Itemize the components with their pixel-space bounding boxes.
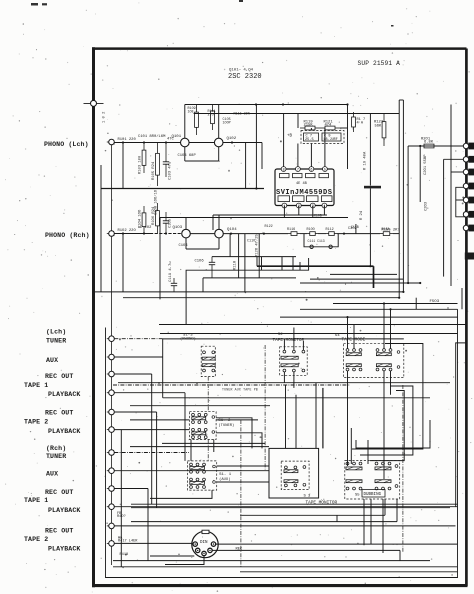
svg-text:C119 4.7u: C119 4.7u [169, 261, 173, 282]
switch S1-2 unit a [192, 413, 208, 423]
svg-text:6: 6 [310, 169, 312, 173]
wire long drop A [398, 100, 400, 298]
resistor R117 [352, 112, 356, 132]
dashdot vertical left [240, 420, 242, 567]
DIN pin 2 [196, 548, 200, 552]
wire c106 bus [212, 256, 296, 258]
wire coupling to IC pin [261, 143, 263, 170]
wire phono R input shielded [150, 233, 181, 235]
capacitor C119 [171, 278, 177, 292]
S5 right contact a [395, 465, 398, 468]
transistor Q104 [215, 229, 224, 238]
wire S1-2 out b [216, 433, 262, 449]
wire R104 rise [122, 234, 124, 293]
wire IC bottom bus 2 [160, 217, 348, 219]
svg-text:R103 100: R103 100 [139, 155, 143, 174]
wire y420 bus b [216, 419, 258, 421]
rec out tape1 R jack ground tab [107, 488, 109, 490]
wire x257 tie [256, 257, 258, 267]
svg-text:C11B: C11B [351, 225, 359, 229]
connector bracket [456, 187, 466, 217]
wire S2 stub3 [302, 341, 304, 350]
wire x400 drop [399, 550, 401, 560]
svg-text:R417 L4ER: R417 L4ER [118, 540, 138, 544]
wire pin2 stub [297, 144, 299, 167]
wire S4 stub4 [390, 309, 392, 348]
wire S1 to housing [217, 465, 269, 467]
wire pin4 stub [324, 128, 326, 167]
switch S2 box [280, 347, 308, 376]
switch S4 unit a [346, 349, 362, 371]
svg-text:Q1O3: Q1O3 [173, 226, 183, 230]
wire tuner bus [163, 338, 404, 340]
wire S1-2 out a [216, 418, 252, 449]
wire R103 drop [122, 143, 124, 189]
svg-text:(TUNER): (TUNER) [218, 423, 234, 428]
resistor R123 [382, 114, 386, 147]
resistor R109 [195, 105, 199, 136]
svg-text:PHONO (Lch): PHONO (Lch) [44, 141, 89, 148]
thick bus bar [364, 186, 381, 189]
wire pb2 R [114, 542, 192, 544]
wire x370 lower [369, 188, 371, 266]
resistor R104 [142, 206, 146, 234]
rec out tape1 R jack [109, 486, 115, 492]
wire S2 down1 [283, 372, 285, 383]
svg-text:1OE: 1OE [188, 111, 194, 115]
svg-text:R1O2 22O: R1O2 22O [118, 229, 137, 233]
capacitor C107 box [304, 133, 319, 141]
svg-text:S2: S2 [278, 333, 283, 337]
junction [231, 141, 233, 143]
svg-text:TAPE 2: TAPE 2 [24, 419, 48, 426]
junction [143, 232, 145, 234]
wire S2 stub2 [293, 328, 295, 351]
tape2 playback R jack ground tab [107, 542, 109, 544]
wire y447 bus [130, 446, 269, 448]
switch S5 unit b [375, 462, 391, 470]
tuner L input jack [109, 336, 115, 342]
wire aux L [114, 356, 162, 358]
wire x443 drop [443, 159, 445, 276]
junction [122, 232, 124, 234]
wire S5 drop a [363, 499, 365, 545]
junction [282, 103, 284, 105]
svg-text:S1- 1: S1- 1 [219, 473, 232, 477]
wire bus y309 [300, 308, 458, 310]
wire emitter tie [185, 160, 219, 162]
junction [343, 233, 345, 235]
svg-text:1 0 2: 1 0 2 [103, 111, 107, 123]
ganged linkage vertical [264, 345, 266, 470]
svg-text:C1O6: C1O6 [195, 260, 205, 264]
svg-text:4E 4B: 4E 4B [296, 182, 308, 186]
tape monitor lower housing [269, 448, 319, 498]
svg-text:S5: S5 [355, 494, 360, 498]
wire C115 stub [355, 224, 357, 234]
junction [255, 187, 257, 189]
switch S4 box [344, 343, 404, 377]
wire thick bus y266 [257, 265, 374, 267]
switch S1-1 box [188, 461, 217, 490]
wire r118 drop [238, 234, 240, 278]
wire pin3 stub [310, 144, 312, 167]
wire S4 down3 [390, 371, 392, 395]
svg-text:S1- 2: S1- 2 [218, 419, 231, 423]
wire y385 dashdot [113, 384, 350, 386]
switch S1-2 box [189, 412, 216, 440]
svg-text:R1OO: R1OO [307, 228, 315, 232]
svg-text:PLAYBACK: PLAYBACK [48, 546, 80, 553]
op-amp U101 body [275, 169, 334, 206]
switch S5 unit c [346, 480, 362, 490]
wire bus y324 [159, 324, 466, 326]
wire fb mid drop [310, 128, 312, 131]
wire y298 bus [123, 297, 399, 299]
wire y515 bus [240, 514, 385, 516]
wire Q102 out [223, 142, 262, 144]
resistor R111 [211, 105, 215, 131]
wire pb2 L [114, 429, 189, 431]
switch S3 unit b [284, 480, 298, 483]
wire lower feed 3 [295, 395, 297, 449]
switch S3 unit a [284, 466, 298, 487]
wire pin5 feed [456, 199, 464, 201]
wire tuner L shielded [114, 338, 162, 340]
wire emitter tie R [186, 248, 219, 250]
wire phono L input [114, 142, 180, 144]
U101 inner bottom contacts [278, 196, 332, 202]
wire S2 stub1 [283, 339, 285, 350]
wire top tie [399, 99, 403, 101]
svg-text:REC OUT: REC OUT [45, 410, 73, 417]
wire lower feed 4 [213, 440, 215, 453]
resistor R116 [288, 232, 300, 236]
wire bus y279 [310, 278, 403, 280]
wire shield drop [100, 165, 102, 292]
wire out line pin1 [408, 145, 464, 147]
junction [398, 297, 400, 299]
ganged switch linkage 2 [207, 440, 209, 461]
switch S3 box [281, 461, 309, 490]
svg-text:PLAYBACK: PLAYBACK [48, 507, 80, 514]
S4 aux contact b [397, 366, 400, 369]
S1-2 aux contact [212, 416, 215, 419]
resistor R106 [156, 203, 160, 234]
wire S1 to housing 2 [217, 481, 269, 483]
wire step up [396, 499, 398, 522]
wire series a [300, 233, 307, 235]
svg-text:TUNER: TUNER [46, 453, 66, 460]
svg-text:(PHONO): (PHONO) [180, 336, 196, 341]
capacitor C105 [163, 212, 169, 234]
switch S1-1 unit b [190, 478, 206, 488]
node chassis ground tie [84, 100, 104, 106]
wire drop x370 [369, 114, 371, 186]
wire y507 bus [131, 507, 450, 509]
switch S2 contacts [281, 350, 305, 372]
svg-text:Q101~ 4,Q4: Q101~ 4,Q4 [229, 69, 254, 73]
wire bus y303 [333, 303, 458, 305]
S1-1 aux contact2 [213, 481, 216, 484]
wire Q101 collector [184, 105, 186, 139]
wire S5 drop b [382, 499, 384, 553]
wire mid drop right of IC [347, 105, 349, 170]
ganged switch linkage [207, 377, 209, 412]
svg-text:(Lch): (Lch) [46, 328, 66, 335]
switch S5 box [345, 461, 400, 499]
S3 right contact b [303, 483, 306, 486]
wire x203 drop [202, 278, 204, 292]
junction [165, 232, 167, 234]
wire pin stub b2 [298, 206, 300, 216]
tape2 playback R jack [109, 541, 115, 547]
wire Q103-Q104 link [190, 233, 214, 235]
svg-text:REC OUT: REC OUT [45, 373, 73, 380]
svg-text:LB.JURF: LB.JURF [324, 138, 338, 142]
aux R input jack ground tab [107, 470, 109, 472]
wire tuner R shielded [114, 452, 189, 454]
schematic outer border frame [92, 47, 468, 587]
wire B+ decoupling drop [255, 105, 257, 189]
svg-text:TUNER AUX TAPE PB: TUNER AUX TAPE PB [222, 388, 258, 392]
wire x151 drop [151, 374, 153, 504]
wire ground bus phono L [101, 188, 264, 190]
DIN pin 4 [208, 548, 212, 552]
wire drop b to collector [281, 257, 283, 271]
wire drop c to collector [292, 257, 294, 271]
DIN pin 3 [202, 551, 206, 555]
wire pin stub b4 [323, 206, 325, 216]
U101 bottom pin 2 [296, 203, 301, 209]
wire Q102 collector [218, 105, 220, 139]
DIN pin 5 [211, 542, 215, 546]
svg-text:PLAYBACK: PLAYBACK [48, 391, 80, 398]
wire r122 drop [258, 234, 260, 278]
tuner L input jack ground tab [107, 338, 109, 340]
wire pb1 R [114, 506, 457, 508]
svg-text:C1O8 1OO/1O: C1O8 1OO/1O [154, 189, 159, 215]
wire rec2 R [114, 525, 455, 527]
svg-text:TAPE 1: TAPE 1 [24, 382, 48, 389]
wire y420 bus [130, 419, 189, 421]
U101 top pin 8 [281, 167, 286, 173]
resistor R121 [320, 126, 340, 130]
svg-text:25.5: 25.5 [305, 138, 314, 142]
wire Q104 emitter [218, 238, 220, 249]
tape1 playback R jack ground tab [107, 506, 109, 508]
capacitor loop C111 C113 [304, 234, 338, 247]
switch S4 unit b [376, 349, 392, 371]
svg-text:C11O: C11O [247, 240, 255, 244]
tuner R input jack [109, 450, 115, 456]
wire x121 drop [120, 430, 122, 567]
svg-text:4 A: 4 A [357, 121, 364, 125]
connector P301 pin 1 [463, 143, 474, 150]
svg-text:DIN: DIN [200, 541, 208, 545]
resistor R103 [142, 143, 146, 174]
svg-text:(AUX): (AUX) [219, 477, 230, 482]
wire DIN bottom drop [165, 556, 204, 565]
transistor Q102 [214, 138, 223, 147]
wire loop to lower switches A [352, 344, 423, 450]
wire fb left drop [297, 114, 299, 129]
tape2 playback L jack ground tab [107, 429, 109, 431]
junction [122, 141, 124, 143]
wire pin1 stub [283, 114, 285, 167]
DIN pin 1 [193, 542, 197, 546]
svg-text:AUX: AUX [46, 357, 58, 364]
U101 top pin 5 [323, 167, 328, 173]
wire y278 bus [203, 277, 296, 279]
wire lower feed 2 [322, 388, 324, 449]
svg-text:C2O1 55BP: C2O1 55BP [424, 154, 428, 175]
svg-text:PHONO (Rch): PHONO (Rch) [45, 232, 90, 239]
wire x148 drop [147, 489, 149, 562]
svg-text:TAPE MONITOR: TAPE MONITOR [306, 500, 338, 505]
svg-text:PLAYBACK: PLAYBACK [48, 428, 80, 435]
svg-text:S 3: S 3 [304, 495, 312, 499]
connector P301 pin 2 [463, 156, 474, 163]
rec out tape2 L jack ground tab [107, 411, 109, 413]
wire S4 down1 [347, 371, 349, 466]
phono L input jack [109, 139, 115, 145]
junction [346, 316, 348, 318]
wire x408 drop [407, 146, 409, 283]
svg-text:C1OB: C1OB [314, 214, 322, 218]
wire y561 bus [113, 560, 430, 562]
phono R input jack [109, 231, 115, 237]
wire series b [318, 233, 326, 235]
capacitor C113 [329, 245, 332, 248]
svg-text:R4O?: R4O? [117, 515, 126, 519]
wire bus y317 [280, 316, 458, 318]
svg-text:R122: R122 [265, 225, 273, 229]
wire Q102 emitter [218, 147, 220, 161]
wire y572 bus [240, 571, 458, 573]
S5 right contact b [395, 485, 398, 488]
aux L input jack ground tab [107, 356, 109, 358]
junction [369, 265, 371, 267]
wire Q103 collector [185, 218, 187, 230]
wire drop d to collector [299, 262, 301, 270]
U101 bottom pin 4 [322, 203, 327, 209]
wire x156 drop [156, 412, 158, 508]
U101 bottom pin 1 [282, 203, 287, 209]
connector P301 pin 7 [463, 225, 474, 232]
U101 top pin 6 [309, 167, 314, 173]
wire x451 drop [450, 105, 452, 287]
wire lower feed 1 [315, 383, 317, 449]
svg-text:R101 220: R101 220 [118, 138, 137, 142]
junction [143, 141, 145, 143]
wire y292 bus [95, 291, 403, 293]
tape1 playback L jack ground tab [107, 392, 109, 394]
wire bias drop [245, 143, 247, 189]
capacitor C109 box [322, 133, 341, 141]
svg-text:R116: R116 [287, 228, 295, 232]
svg-text:+B: +B [287, 135, 293, 139]
svg-text:474: 474 [325, 123, 333, 127]
wire drop a to collector [261, 257, 263, 271]
wire x185 drop [184, 393, 186, 461]
rec out tape1 L jack ground tab [107, 373, 109, 375]
capacitor C103 [163, 143, 169, 178]
junction [263, 233, 265, 235]
wire x160 drop [159, 218, 161, 300]
wire pin stub b1 [283, 206, 285, 218]
wire pin2 feed [444, 158, 464, 160]
junction [230, 233, 232, 235]
wire x162 drop [162, 339, 164, 398]
wire DIN out right [216, 543, 458, 545]
wire Q101 emitter [184, 147, 186, 161]
wire rail 2 [194, 113, 400, 115]
wire y567 bus [113, 566, 458, 568]
switch S5 unit d [375, 480, 391, 490]
wire x213 drop [212, 215, 214, 230]
U101 bottom pin 3 [310, 203, 315, 209]
junction [389, 308, 391, 310]
wire S4 stub3 [383, 304, 385, 349]
wire thick bus drop [373, 266, 375, 288]
switch S1-2 unit b [192, 428, 208, 438]
wire rec1 R [114, 488, 148, 490]
wire loop to lower switches B [360, 386, 413, 455]
S1-1 aux contact [213, 465, 216, 468]
svg-text:215K: 215K [304, 123, 314, 127]
tape1 playback R jack [109, 504, 115, 510]
wire pin3 feed [451, 171, 464, 173]
dashdot vertical right [402, 385, 404, 553]
resistor R110 [307, 232, 318, 236]
wire bus y274 [330, 273, 397, 275]
wire right edge drop [456, 343, 466, 507]
svg-text:6.8K: 6.8K [424, 140, 434, 144]
rec out tape2 L jack [109, 409, 115, 415]
switch S5 unit a [346, 462, 362, 470]
capacitor C106 [209, 257, 215, 278]
S3 right contact a [303, 466, 306, 469]
wire S4 stub1 [347, 317, 349, 349]
connector P301 pin 3 [463, 169, 474, 176]
wire rec2 L [114, 411, 156, 413]
junction [383, 302, 385, 304]
svg-text:(Rch): (Rch) [46, 445, 66, 452]
U101 inner top contacts [280, 174, 329, 178]
DIN connector key notch [202, 530, 209, 533]
wire rec1 L [114, 373, 151, 375]
S4 aux contact a [397, 351, 400, 354]
svg-text:F5O3: F5O3 [430, 300, 440, 304]
wire y504 bus [131, 503, 458, 505]
wire S5 drop c [370, 499, 372, 544]
wire IC bottom bus 1 [213, 214, 327, 216]
svg-text:R105 R24: R105 R24 [152, 161, 156, 180]
resistor R154 [380, 232, 393, 236]
wire bus y283 [300, 282, 420, 284]
junction [165, 141, 167, 143]
switch S1-1 unit a [190, 463, 206, 473]
power takeoff heavy bar [465, 253, 474, 260]
DIN recording connector body [192, 531, 218, 557]
svg-text:5: 5 [324, 169, 326, 173]
wire S1 column link [190, 440, 192, 461]
wire B+ rail [185, 104, 348, 106]
resistor R119 [300, 126, 320, 130]
svg-text:56K: 56K [375, 124, 383, 128]
resistor R105 [156, 143, 160, 187]
